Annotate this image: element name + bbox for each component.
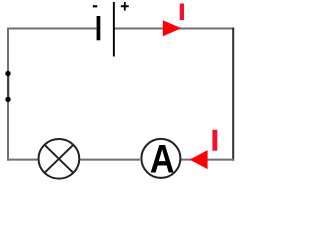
wire segment between junction dots (7, 72, 9, 101)
node junction dot lower (5, 97, 10, 102)
wire top-right (battery plus to right rail) (115, 28, 235, 30)
wire bottom-middle (lamp to ammeter) (80, 159, 140, 161)
battery negative plate (short thick) (97, 16, 101, 40)
lamp L1 cross line 2 (45, 145, 74, 173)
lamp L1 cross line 1 (45, 145, 74, 173)
label I bottom (red) (212, 130, 217, 151)
label - (battery minus) (93, 5, 97, 7)
label I top (red) (180, 4, 184, 21)
current arrow bottom (red triangle pointing left) (190, 150, 208, 169)
label + (battery plus) (121, 2, 129, 11)
ammeter A1 circle (141, 139, 180, 178)
wire bottom-right (ammeter to right rail) (181, 159, 234, 161)
node junction dot upper (5, 71, 10, 76)
wire top-left (battery minus to left rail) (7, 28, 97, 30)
wire right rail (232, 28, 234, 161)
wire left rail (7, 28, 9, 161)
svg-text:A: A (150, 136, 175, 181)
battery positive plate (long thin) (113, 2, 115, 57)
lamp L1 circle (39, 139, 80, 179)
wire bottom-left (left rail to lamp) (7, 159, 38, 161)
current arrow top (red triangle pointing right) (163, 20, 182, 36)
